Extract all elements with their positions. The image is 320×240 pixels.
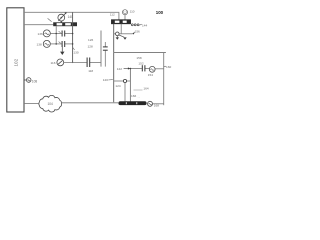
node 124 circle: [123, 79, 126, 82]
AC source 154: [149, 66, 155, 72]
junction row2/leg: [55, 43, 57, 45]
leader tick for bar1 label: [48, 18, 52, 21]
wire row 62: [64, 61, 87, 63]
wire row 81: [114, 80, 124, 82]
mains supply cloud: [39, 95, 62, 112]
wire from 168 to right bus: [153, 103, 164, 105]
svg-text:126: 126: [88, 38, 93, 42]
controller box U1: [7, 8, 24, 112]
capacitor C4 on right of bus B: [104, 42, 106, 47]
heater bar3: [118, 101, 146, 105]
sensor 116: [57, 59, 64, 66]
wire leg from bar1 left down through cap rows: [55, 26, 57, 44]
svg-text:160: 160: [166, 65, 171, 69]
wire row 33.8 to label 156: [114, 33, 116, 35]
junction leg down from row 68.5: [129, 69, 131, 102]
svg-text:120: 120: [103, 78, 108, 82]
svg-text:102: 102: [13, 58, 18, 66]
label 130 + leader: [73, 48, 75, 50]
wire stem from meter 140 into bar1: [60, 21, 62, 22]
bus A vertical: [72, 12, 74, 62]
svg-text:. .: . .: [138, 95, 141, 99]
wire: top line from box to right cluster: [24, 12, 119, 19]
wire row 52.5: [114, 52, 166, 54]
wire box to cloud: [24, 102, 39, 104]
svg-text:128: 128: [88, 44, 93, 48]
leader tick C1: [59, 31, 61, 33]
svg-text:152: 152: [138, 62, 143, 66]
leader tick C2: [59, 42, 61, 44]
tick + label 160: [164, 65, 166, 68]
ballast bar1: [53, 22, 77, 26]
AC source 138: [43, 40, 50, 47]
capacitor C2: [62, 41, 65, 47]
main right bus vertical: [113, 24, 115, 103]
wire cloud to bar3: [62, 102, 119, 104]
junction bus A bottom: [72, 62, 73, 63]
labels 164 166 cluster: [134, 89, 143, 91]
svg-text:138: 138: [37, 43, 42, 47]
svg-text:164: 164: [143, 87, 148, 91]
right bus vertical: [163, 53, 165, 106]
wire row1: [50, 33, 61, 35]
AC source 108 on box edge: [24, 78, 31, 83]
svg-text:154: 154: [148, 73, 153, 77]
ground below C2: [61, 45, 63, 52]
svg-text:104: 104: [48, 102, 54, 106]
svg-text:100: 100: [156, 10, 164, 15]
lamp indicators 114 + label 144: [131, 24, 133, 26]
svg-text:168: 168: [154, 103, 159, 107]
wire row 68.5: [130, 68, 142, 70]
svg-text:112: 112: [110, 12, 115, 16]
svg-text:144: 144: [142, 24, 147, 28]
junction row1/leg: [55, 33, 57, 35]
node N1 with arrows: [116, 32, 120, 36]
wire leg from bar2 right: [120, 24, 122, 34]
svg-text:166: 166: [131, 94, 136, 98]
meter 140 (circle with arrow): [58, 12, 67, 21]
svg-text:130: 130: [73, 50, 78, 54]
svg-text:124: 124: [115, 84, 120, 88]
AC source 136: [43, 30, 50, 37]
ballast bar2: [112, 20, 131, 24]
capacitor C5: [142, 65, 145, 71]
svg-text:136: 136: [38, 32, 43, 36]
wire: second line from box to bar1: [24, 24, 53, 26]
lamp 110: [123, 10, 128, 20]
svg-text:108: 108: [32, 79, 38, 83]
svg-text:156: 156: [135, 30, 140, 34]
capacitor C3: [87, 58, 90, 68]
AC source 168: [148, 101, 153, 106]
svg-text:122: 122: [117, 67, 122, 71]
svg-text:116: 116: [51, 61, 56, 65]
bus B vertical: [100, 31, 102, 67]
capacitor C1: [62, 31, 65, 37]
wire row2: [50, 43, 61, 45]
wire leg from node down to bar3: [124, 83, 126, 102]
svg-text:110: 110: [130, 10, 135, 14]
svg-text:118: 118: [88, 69, 93, 73]
svg-text:158: 158: [136, 56, 141, 60]
